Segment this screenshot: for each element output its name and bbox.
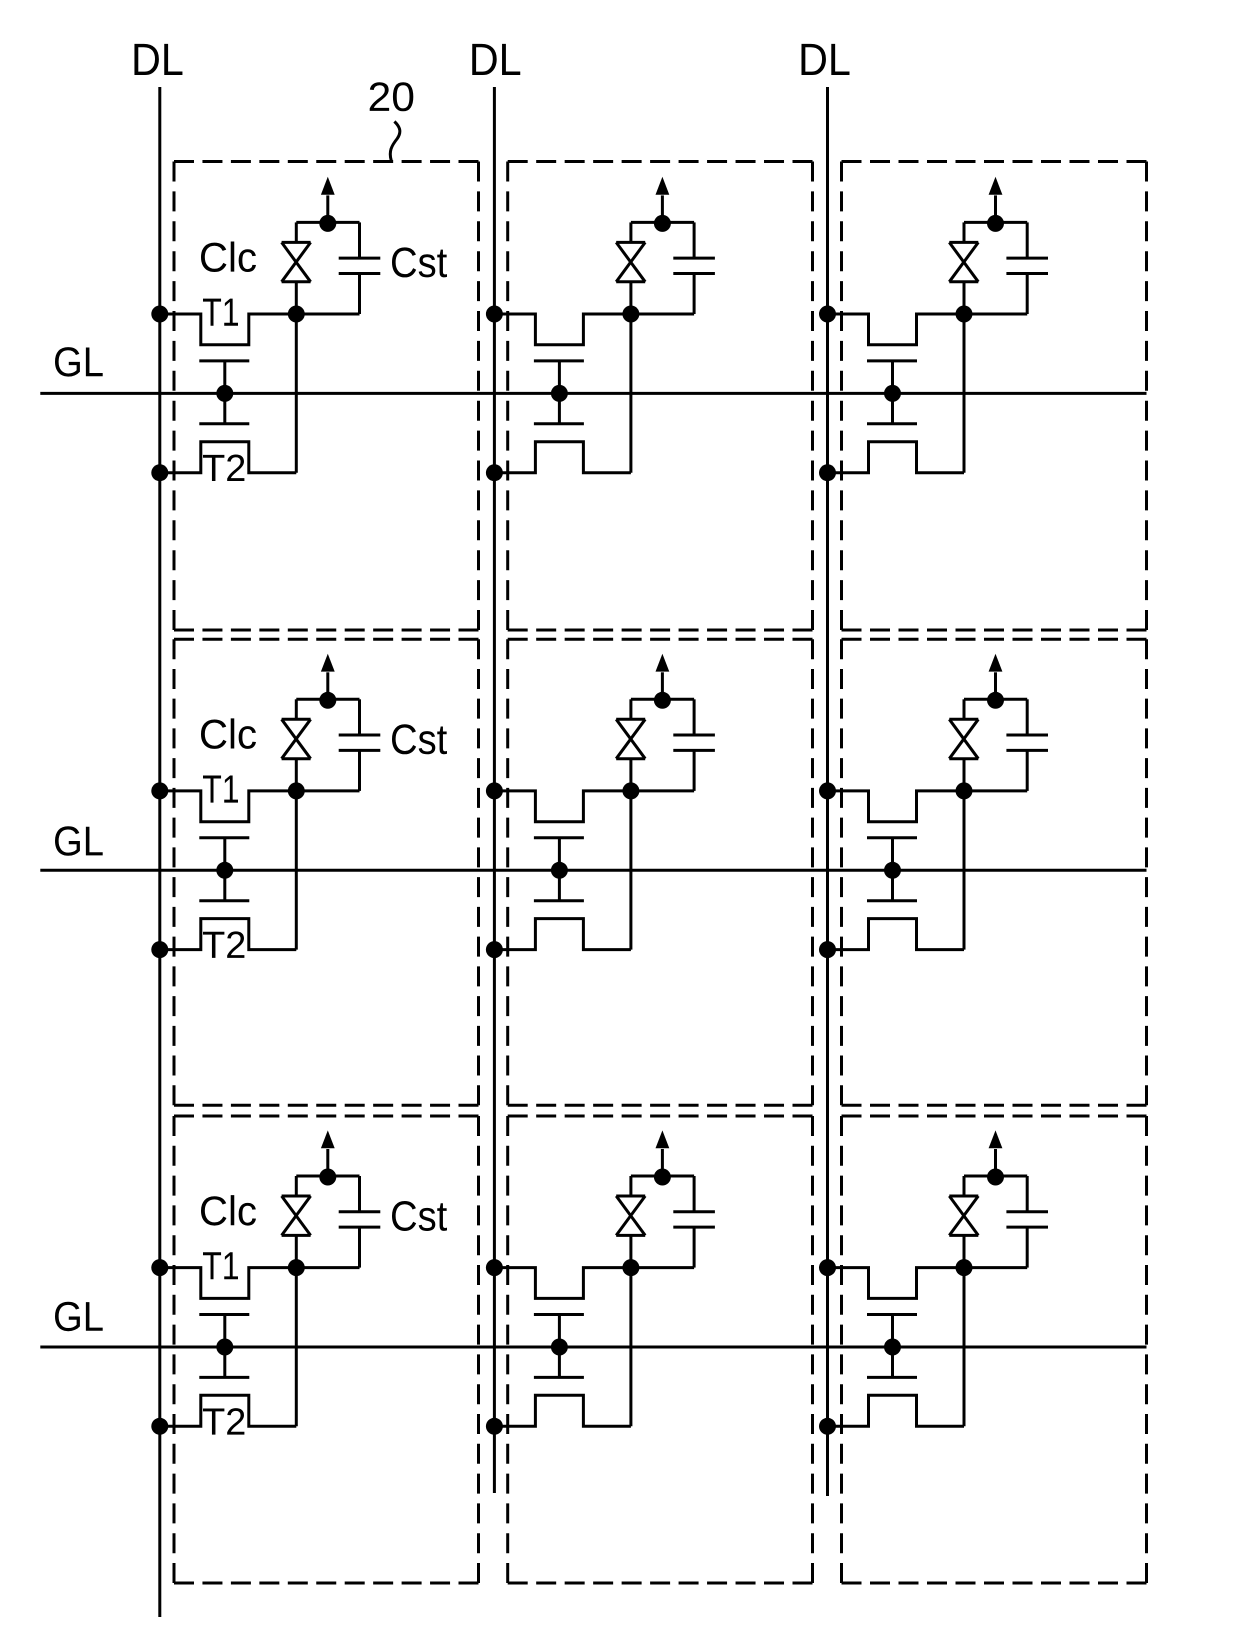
wire: pixel-electrode vertical R3C1 (Clc bottom stub through node to T2 drain) [295,1235,298,1426]
wire: Cst R3C2 top stub [693,1176,696,1212]
wire: Clc R2C1 top stub [295,699,298,719]
wire: Cst R3C1 bottom plate stub [358,1227,361,1268]
wire: Clc R3C1 top stub [295,1176,298,1196]
arrowhead: common-voltage terminal R3C1 [321,1130,335,1148]
wire: common-node top loop R2C1 [296,698,359,701]
transistor T1 R2C1 gate bar [199,836,249,839]
wire: Clc R2C3 top stub [963,699,966,719]
label Clc R1C1 [201,241,256,271]
dashed pixel-region box row1 col3 [842,162,1147,631]
junction dot: DL / T2 source R1C1 [151,464,168,481]
wire: Cst R2C2 bottom plate stub [693,750,696,791]
node: pixel electrode junction R3C3 [956,1259,973,1276]
transistor T1 R2C2 gate bar [534,836,584,839]
capacitor Clc R2C1 (liquid crystal capacitor, hourglass symbol) [282,719,311,758]
wire: shared gate stub T1/T2 R3C2 [558,1315,561,1378]
wire: common-node top loop R1C1 [296,221,359,224]
arrowhead: common-voltage terminal R3C2 [656,1130,670,1148]
wire: pixel-electrode vertical R2C2 (Clc bottom stub through node to T2 drain) [629,759,632,950]
label Cst R3C1 [392,1201,447,1231]
junction dot: DL / T2 source R2C3 [819,941,836,958]
arrowhead: common-voltage terminal R1C1 [321,177,335,195]
junction dot: DL / T2 source R3C2 [486,1418,503,1435]
wire: DL to transistor T2 R3C3 source/drain channel [828,1395,965,1426]
junction dot: gate line GL R3C2 [551,1339,568,1356]
wire: DL to transistor T2 R1C3 source/drain channel [828,442,965,473]
junction dot: DL / T1 source R1C2 [486,306,503,323]
wire: Cst R3C2 bottom plate stub [693,1227,696,1268]
label GL2 [55,826,103,856]
label T1 R2C1 [203,776,238,803]
wire: pixel-electrode vertical R3C3 (Clc bottom stub through node to T2 drain) [963,1235,966,1426]
wire: DL to transistor T1 R1C3 source/drain channel [828,314,1028,345]
junction dot: DL / T1 source R3C3 [819,1259,836,1276]
arrowhead: common-voltage terminal R2C2 [656,654,670,672]
capacitor Cst R3C1 (storage capacitor plates) [339,1212,381,1227]
capacitor Cst R3C3 (storage capacitor plates) [1006,1212,1048,1227]
junction dot: DL / T1 source R3C1 [151,1259,168,1276]
label DL1 [134,44,182,75]
dashed pixel-region box row1 col1 [174,162,479,631]
pixel cell row3 col1 [151,1130,447,1434]
label Clc R2C1 [201,718,256,748]
wire: pixel-electrode vertical R1C1 (Clc bottom stub through node to T2 drain) [295,282,298,473]
wire: common-node top loop R3C2 [631,1175,694,1178]
capacitor Clc R1C3 (liquid crystal capacitor, hourglass symbol) [949,242,978,281]
arrowhead: common-voltage terminal R3C3 [989,1130,1003,1148]
wire: shared gate stub T1/T2 R3C3 [891,1315,894,1378]
junction dot: common node R2C2 [654,692,671,709]
arrowhead: common-voltage terminal R1C3 [989,177,1003,195]
capacitor Cst R1C3 (storage capacitor plates) [1006,258,1048,273]
wire: DL to transistor T2 R3C2 source/drain channel [494,1395,631,1426]
wire: common-voltage arrow shaft R2C1 [326,672,329,700]
wire: pixel-electrode vertical R2C3 (Clc bottom stub through node to T2 drain) [963,759,966,950]
dashed pixel-region box row1 col2 [508,162,813,631]
label T2 R3C1 [203,1408,244,1434]
wire: common-voltage arrow shaft R3C1 [326,1149,329,1177]
wire: shared gate stub T1/T2 R1C2 [558,361,561,424]
node: pixel electrode junction R1C1 [288,306,305,323]
label DL3 [801,44,849,75]
wire: DL to transistor T2 R1C2 source/drain channel [494,442,631,473]
capacitor Clc R3C2 (liquid crystal capacitor, hourglass symbol) [616,1196,645,1235]
transistor T2 R3C1 gate bar [199,1376,249,1379]
junction dot: DL / T1 source R2C1 [151,782,168,799]
wire: common-voltage arrow shaft R3C3 [994,1149,997,1177]
pixel cell row1 col1 [151,177,447,481]
pixel cell row1 col3 [819,177,1048,481]
wire: Cst R1C3 bottom plate stub [1026,274,1029,315]
dashed pixel-region box row3 col3 [842,1116,1147,1583]
wire: Clc R1C3 top stub [963,222,966,242]
wire: Cst R3C3 bottom plate stub [1026,1227,1029,1268]
transistor T2 R1C2 gate bar [534,422,584,425]
label Cst R2C1 [392,724,447,754]
junction dot: DL / T1 source R3C2 [486,1259,503,1276]
wire: DL to transistor T1 R3C1 source/drain channel [160,1268,360,1299]
junction dot: common node R1C2 [654,215,671,232]
pixel cell row1 col2 [486,177,715,481]
node: pixel electrode junction R1C3 [956,306,973,323]
capacitor Clc R3C1 (liquid crystal capacitor, hourglass symbol) [282,1196,311,1235]
wire: Cst R2C3 top stub [1026,699,1029,735]
dashed pixel-region box row3 col2 [508,1116,813,1583]
wire: DL to transistor T2 R3C1 source/drain channel [160,1395,296,1426]
junction dot: gate line GL R1C1 [216,385,233,402]
transistor T2 R2C3 gate bar [867,899,917,902]
junction dot: common node R3C1 [319,1169,336,1186]
transistor T1 R2C3 gate bar [867,836,917,839]
junction dot: DL / T2 source R2C2 [486,941,503,958]
transistor T2 R1C3 gate bar [867,422,917,425]
wire: common-node top loop R3C1 [296,1175,359,1178]
wire: DL to transistor T1 R2C2 source/drain channel [494,791,694,822]
wire: DL to transistor T1 R2C3 source/drain channel [828,791,1028,822]
wire: Cst R1C2 bottom plate stub [693,274,696,315]
wire: gate line GL3 [40,1346,1146,1349]
wire: shared gate stub T1/T2 R3C1 [223,1315,226,1378]
dashed pixel-region box row2 col1 [174,639,479,1105]
transistor T1 R1C2 gate bar [534,359,584,362]
capacitor Clc R1C2 (liquid crystal capacitor, hourglass symbol) [616,242,645,281]
transistor T2 R1C1 gate bar [199,422,249,425]
wire: Cst R3C1 top stub [358,1176,361,1212]
junction dot: common node R2C3 [987,692,1004,709]
wire: Clc R1C2 top stub [629,222,632,242]
capacitor Cst R2C2 (storage capacitor plates) [673,735,715,750]
label Cst R1C1 [392,247,447,277]
wire: Clc R1C1 top stub [295,222,298,242]
wire: DL to transistor T2 R2C1 source/drain channel [160,919,296,950]
wire: common-node top loop R3C3 [964,1175,1027,1178]
wire: Cst R1C1 bottom plate stub [358,274,361,315]
capacitor Cst R3C2 (storage capacitor plates) [673,1212,715,1227]
node: pixel electrode junction R3C2 [622,1259,639,1276]
junction dot: gate line GL R1C3 [884,385,901,402]
wire: pixel-electrode vertical R1C2 (Clc bottom stub through node to T2 drain) [629,282,632,473]
transistor T2 R3C2 gate bar [534,1376,584,1379]
junction dot: gate line GL R2C3 [884,862,901,879]
leader squiggle for label 20 [390,122,400,161]
junction dot: DL / T1 source R1C3 [819,306,836,323]
capacitor Clc R3C3 (liquid crystal capacitor, hourglass symbol) [949,1196,978,1235]
wire: DL to transistor T1 R1C1 source/drain channel [160,314,360,345]
wire: common-node top loop R2C3 [964,698,1027,701]
junction dot: common node R3C2 [654,1169,671,1186]
label 20 (pixel reference numeral) [370,82,414,111]
pixel cell row2 col2 [486,654,715,958]
wire: DL to transistor T1 R3C2 source/drain channel [494,1268,694,1299]
wire: DL to transistor T1 R3C3 source/drain channel [828,1268,1028,1299]
wire: pixel-electrode vertical R1C3 (Clc bottom stub through node to T2 drain) [963,282,966,473]
wire: common-voltage arrow shaft R1C3 [994,195,997,223]
junction dot: common node R2C1 [319,692,336,709]
junction dot: DL / T1 source R1C1 [151,306,168,323]
wire: common-node top loop R2C2 [631,698,694,701]
wire: Cst R3C3 top stub [1026,1176,1029,1212]
wire: shared gate stub T1/T2 R1C1 [223,361,226,424]
wire: DL to transistor T2 R1C1 source/drain channel [160,442,296,473]
wire: DL to transistor T1 R2C1 source/drain channel [160,791,360,822]
wire: common-voltage arrow shaft R3C2 [661,1149,664,1177]
wire: common-node top loop R1C3 [964,221,1027,224]
junction dot: gate line GL R3C3 [884,1339,901,1356]
node: pixel electrode junction R1C2 [622,306,639,323]
wire: common-voltage arrow shaft R1C1 [326,195,329,223]
wire: shared gate stub T1/T2 R1C3 [891,361,894,424]
label GL3 [55,1302,103,1332]
wire: pixel-electrode vertical R2C1 (Clc bottom stub through node to T2 drain) [295,759,298,950]
pixel cell row3 col3 [819,1130,1048,1434]
wire: Cst R1C2 top stub [693,222,696,258]
wire: pixel-electrode vertical R3C2 (Clc bottom stub through node to T2 drain) [629,1235,632,1426]
capacitor Cst R2C3 (storage capacitor plates) [1006,735,1048,750]
transistor T2 R2C1 gate bar [199,899,249,902]
junction dot: DL / T1 source R2C2 [486,782,503,799]
wire: DL to transistor T2 R2C3 source/drain channel [828,919,965,950]
junction dot: gate line GL R2C1 [216,862,233,879]
junction dot: DL / T2 source R2C1 [151,941,168,958]
wire: Cst R1C1 top stub [358,222,361,258]
junction dot: DL / T2 source R3C3 [819,1418,836,1435]
wire: Clc R3C3 top stub [963,1176,966,1196]
wire: Clc R3C2 top stub [629,1176,632,1196]
dashed pixel-region box row3 col1 [174,1116,479,1583]
capacitor Cst R2C1 (storage capacitor plates) [339,735,381,750]
transistor T1 R3C1 gate bar [199,1313,249,1316]
wire: shared gate stub T1/T2 R2C3 [891,838,894,901]
junction dot: gate line GL R2C2 [551,862,568,879]
arrowhead: common-voltage terminal R1C2 [656,177,670,195]
junction dot: gate line GL R3C1 [216,1339,233,1356]
arrowhead: common-voltage terminal R2C1 [321,654,335,672]
wire: Cst R1C3 top stub [1026,222,1029,258]
label T1 R3C1 [203,1252,238,1279]
label T1 R1C1 [203,299,238,326]
capacitor Cst R1C2 (storage capacitor plates) [673,258,715,273]
label T2 R2C1 [203,931,244,957]
node: pixel electrode junction R3C1 [288,1259,305,1276]
capacitor Clc R2C3 (liquid crystal capacitor, hourglass symbol) [949,719,978,758]
capacitor Cst R1C1 (storage capacitor plates) [339,258,381,273]
transistor T2 R3C3 gate bar [867,1376,917,1379]
wire: shared gate stub T1/T2 R2C2 [558,838,561,901]
label DL2 [472,44,520,75]
junction dot: common node R1C1 [319,215,336,232]
pixel cell row2 col1 [151,654,447,958]
pixel cell row3 col2 [486,1130,715,1434]
pixel cell row2 col3 [819,654,1048,958]
transistor T2 R2C2 gate bar [534,899,584,902]
junction dot: DL / T2 source R3C1 [151,1418,168,1435]
wire: common-voltage arrow shaft R2C3 [994,672,997,700]
wire: common-voltage arrow shaft R1C2 [661,195,664,223]
wire: Cst R2C1 top stub [358,699,361,735]
node: pixel electrode junction R2C3 [956,782,973,799]
wire: DL to transistor T1 R1C2 source/drain channel [494,314,694,345]
transistor T1 R1C1 gate bar [199,359,249,362]
junction dot: gate line GL R1C2 [551,385,568,402]
arrowhead: common-voltage terminal R2C3 [989,654,1003,672]
wire: Cst R2C3 bottom plate stub [1026,750,1029,791]
junction dot: common node R1C3 [987,215,1004,232]
wire: data line DL3 [826,87,829,1496]
dashed pixel-region box row2 col2 [508,639,813,1105]
dashed pixel-region box row2 col3 [842,639,1147,1105]
label GL1 [55,347,103,377]
wire: common-node top loop R1C2 [631,221,694,224]
node: pixel electrode junction R2C1 [288,782,305,799]
transistor T1 R3C3 gate bar [867,1313,917,1316]
capacitor Clc R2C2 (liquid crystal capacitor, hourglass symbol) [616,719,645,758]
wire: Cst R2C2 top stub [693,699,696,735]
wire: shared gate stub T1/T2 R2C1 [223,838,226,901]
wire: data line DL1 [158,87,161,1617]
transistor T1 R3C2 gate bar [534,1313,584,1316]
label T2 R1C1 [203,455,244,481]
node: pixel electrode junction R2C2 [622,782,639,799]
junction dot: DL / T2 source R1C3 [819,464,836,481]
wire: gate line GL1 [40,392,1146,395]
transistor T1 R1C3 gate bar [867,359,917,362]
label Clc R3C1 [201,1195,256,1225]
junction dot: DL / T1 source R2C3 [819,782,836,799]
wire: Cst R2C1 bottom plate stub [358,750,361,791]
junction dot: DL / T2 source R1C2 [486,464,503,481]
capacitor Clc R1C1 (liquid crystal capacitor, hourglass symbol) [282,242,311,281]
wire: DL to transistor T2 R2C2 source/drain channel [494,919,631,950]
wire: Clc R2C2 top stub [629,699,632,719]
wire: data line DL2 [493,87,496,1493]
wire: gate line GL2 [40,869,1146,872]
junction dot: common node R3C3 [987,1169,1004,1186]
wire: common-voltage arrow shaft R2C2 [661,672,664,700]
